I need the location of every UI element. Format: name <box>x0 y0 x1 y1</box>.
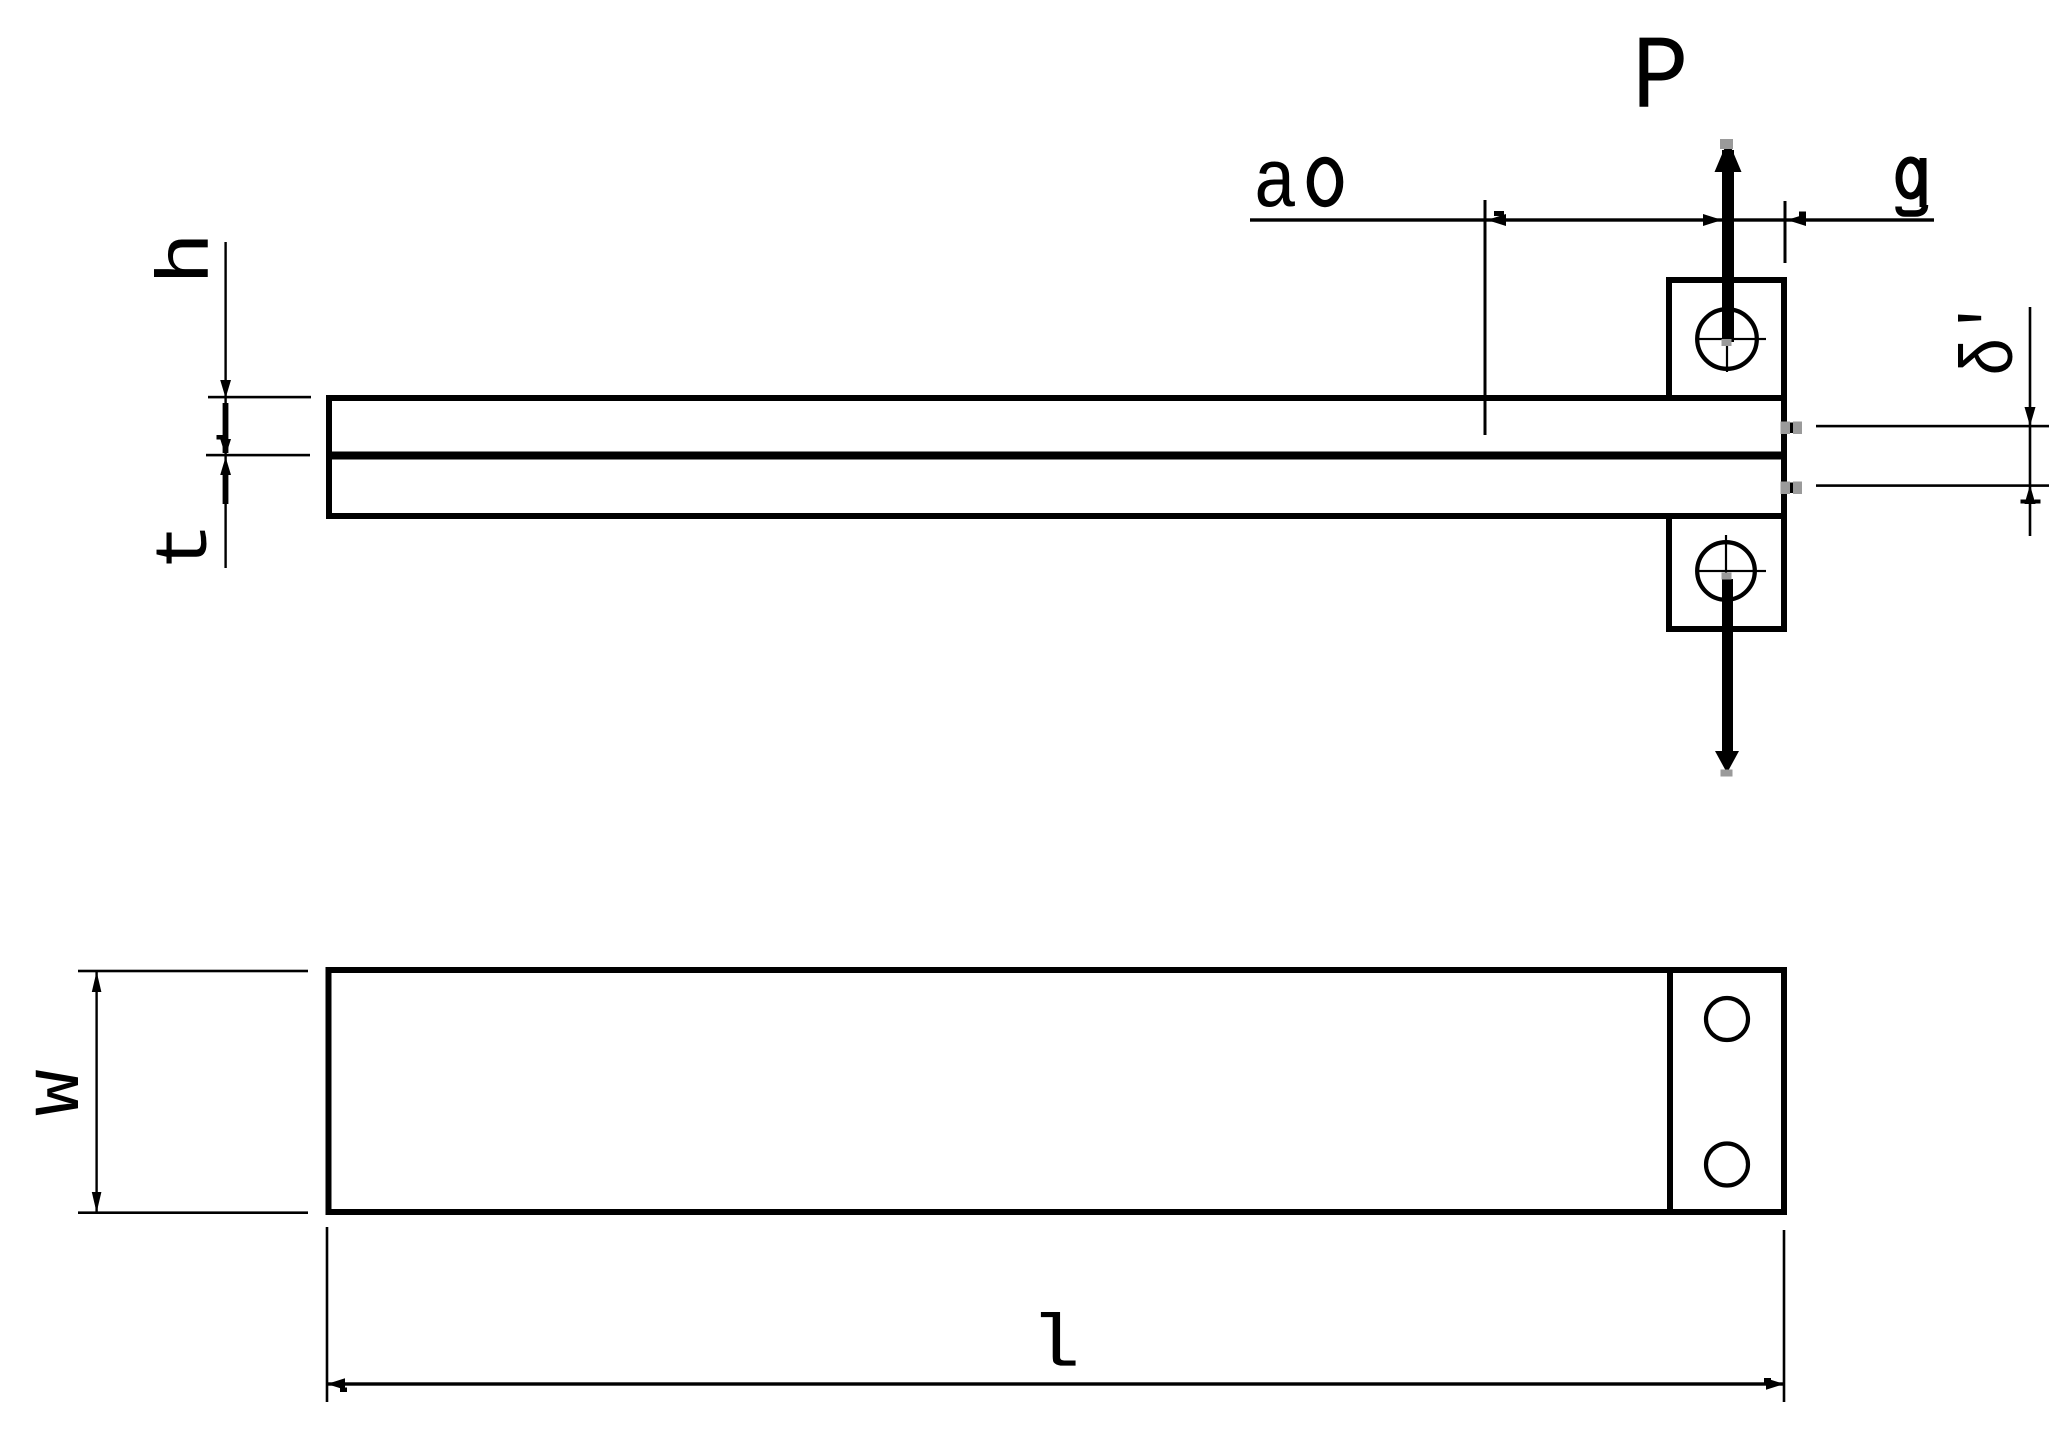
grip marker top pin center <box>1722 339 1732 346</box>
label w (rotated) <box>11 1069 102 1116</box>
crack tip extension line <box>1484 200 1487 435</box>
bottom loading block <box>1669 516 1784 629</box>
svg-text:t: t <box>145 522 229 571</box>
block boundary line in plan <box>1667 970 1673 1212</box>
label t (rotated) <box>145 522 229 571</box>
svg-text:l: l <box>1030 1304 1080 1388</box>
grip marker bottom pin center <box>1722 573 1732 580</box>
grip marker at down arrow tip <box>1721 770 1733 777</box>
w top extension line <box>78 970 308 973</box>
delta upper extension line <box>1816 425 2049 428</box>
plan bottom hole <box>1706 1144 1748 1186</box>
delta bottom arrowhead <box>2021 485 2041 504</box>
a0 right arrowhead <box>1703 214 1722 226</box>
svg-text:w: w <box>11 1069 102 1116</box>
label delta prime (rotated) <box>1950 299 2034 376</box>
a0 / g dimension line <box>1250 218 1934 221</box>
delta lower extension line <box>1816 484 2049 487</box>
label h (rotated) <box>146 232 230 285</box>
bottom pin crosshair <box>1697 535 1766 606</box>
l left arrowhead <box>327 1378 347 1392</box>
grip markers lower beam end <box>1781 482 1803 495</box>
svg-text:h: h <box>146 232 230 285</box>
grip markers upper beam end <box>1781 422 1803 435</box>
top loading block <box>1669 280 1784 398</box>
t dimension bar <box>223 474 229 504</box>
top pin crosshair <box>1696 304 1766 372</box>
extension line top of beam <box>208 396 311 399</box>
h top arrowhead <box>220 380 231 398</box>
h/t dimension line <box>224 242 226 568</box>
t upper arrowhead <box>217 435 232 456</box>
l dimension line <box>327 1382 1784 1385</box>
label a0 <box>1253 137 1340 231</box>
label g (custom glyph) <box>1899 158 1927 214</box>
top pin hole <box>1697 309 1757 369</box>
delta dimension line <box>2029 307 2032 536</box>
a0 left arrowhead <box>1487 211 1506 226</box>
l left extension line <box>326 1227 329 1402</box>
load arrow P up <box>1715 140 1742 342</box>
t lower arrowhead <box>220 457 231 475</box>
extension line bondline <box>206 454 310 457</box>
bottom pin hole <box>1697 542 1755 600</box>
svg-text:δ': δ' <box>1950 299 2034 376</box>
beam side view outline <box>329 398 1784 516</box>
l right extension line <box>1783 1230 1786 1402</box>
label l <box>1030 1304 1080 1388</box>
grip marker at arrow tip P <box>1720 139 1733 149</box>
delta top arrowhead <box>2025 407 2036 426</box>
plan top hole <box>1706 998 1748 1040</box>
w top arrowhead <box>92 972 102 993</box>
w bottom extension line <box>78 1211 308 1214</box>
w dimension line <box>95 971 97 1213</box>
l right arrowhead <box>1764 1378 1784 1390</box>
svg-text:a: a <box>1253 137 1297 231</box>
h dimension bar <box>223 403 229 453</box>
g arrowhead <box>1787 212 1806 227</box>
specimen end extension line <box>1784 201 1787 263</box>
w bottom arrowhead <box>92 1192 102 1213</box>
adhesive bondline / crack <box>329 452 1784 460</box>
load arrow down <box>1715 579 1739 773</box>
plan view outline <box>329 970 1785 1212</box>
svg-text:P: P <box>1632 20 1689 139</box>
label P <box>1632 20 1689 139</box>
